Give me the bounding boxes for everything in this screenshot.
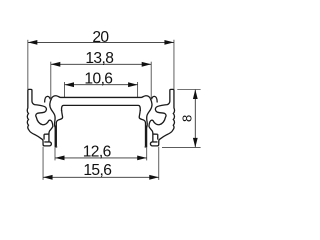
dimension 10,6 arrow left [65, 82, 75, 87]
dimension 20 extension line right [173, 40, 175, 89]
dimension 20 extension line left [27, 40, 29, 89]
left spring slot shoulder [44, 133, 49, 135]
profile left outer wall descending to lower wall (spring slot inner side) [50, 98, 55, 127]
svg-text:13,8: 13,8 [85, 50, 113, 67]
dimension 10,6 extension line left [64, 82, 66, 97]
dimension 12,6 extension line left [54, 148, 56, 161]
right ear strip edge [157, 134, 159, 139]
svg-text:15,6: 15,6 [83, 162, 111, 179]
dimension 10,6 extension line right [137, 82, 139, 97]
svg-text:8: 8 [180, 115, 195, 122]
profile inner cavity (lamp channel) [62, 105, 141, 111]
dimension 13,8 arrow right [142, 62, 152, 67]
right wing root hump [152, 96, 158, 102]
dimension 8 arrow bottom [193, 138, 198, 148]
dimension 8 line [194, 90, 196, 148]
dimension 20 line [28, 41, 174, 43]
dimension 15,6 line [43, 176, 159, 178]
dimension 20 arrow left [28, 40, 37, 45]
dimension 12,6 arrow right [137, 156, 147, 161]
profile right outer wall descending to lower wall (spring slot inner side) [147, 98, 152, 127]
dimension 10,6 arrow right [128, 82, 138, 87]
dimension 12,6 extension line right [146, 148, 148, 161]
dimension 20 arrow right [164, 40, 174, 45]
profile bottom edge right wall [145, 146, 148, 148]
dimension 15,6 extension line right [158, 147, 160, 180]
dimension 13,8 extension line left [50, 62, 52, 99]
svg-text:12,6: 12,6 [83, 143, 111, 160]
dimension 8 extension line bottom [162, 146, 201, 148]
left ear strip edge [43, 134, 45, 139]
dimension 8 extension line top [177, 89, 200, 91]
dimension 12,6 arrow left [55, 156, 65, 161]
right spring wing with mounting foot [149, 89, 175, 146]
profile right lower wall [145, 126, 147, 147]
dimension 13,8 line [51, 63, 151, 65]
dimension 8 arrow top [193, 90, 198, 100]
left wing root hump [45, 96, 51, 102]
profile bottom edge left wall [55, 146, 58, 148]
dimension 13,8 extension line right [150, 62, 152, 99]
dimension 15,6 arrow right [149, 175, 159, 180]
dimension 15,6 extension line left [42, 147, 44, 180]
dimension 12,6 line [55, 157, 147, 159]
left spring wing with mounting foot [27, 89, 53, 146]
dimension 10,6 line [65, 84, 138, 86]
profile left lower wall [55, 126, 57, 147]
profile left cavity-to-wall transition [56, 110, 62, 146]
svg-text:20: 20 [92, 29, 109, 46]
profile right cavity-to-wall transition [139, 110, 145, 146]
profile top surface with edge ridges [52, 96, 151, 99]
left mounting foot top edge [44, 141, 49, 143]
right spring slot shoulder [153, 133, 158, 135]
dimension 15,6 arrow left [43, 175, 53, 180]
dimension 13,8 arrow left [51, 62, 61, 67]
right mounting foot top edge [153, 141, 158, 143]
svg-text:10,6: 10,6 [84, 71, 112, 88]
